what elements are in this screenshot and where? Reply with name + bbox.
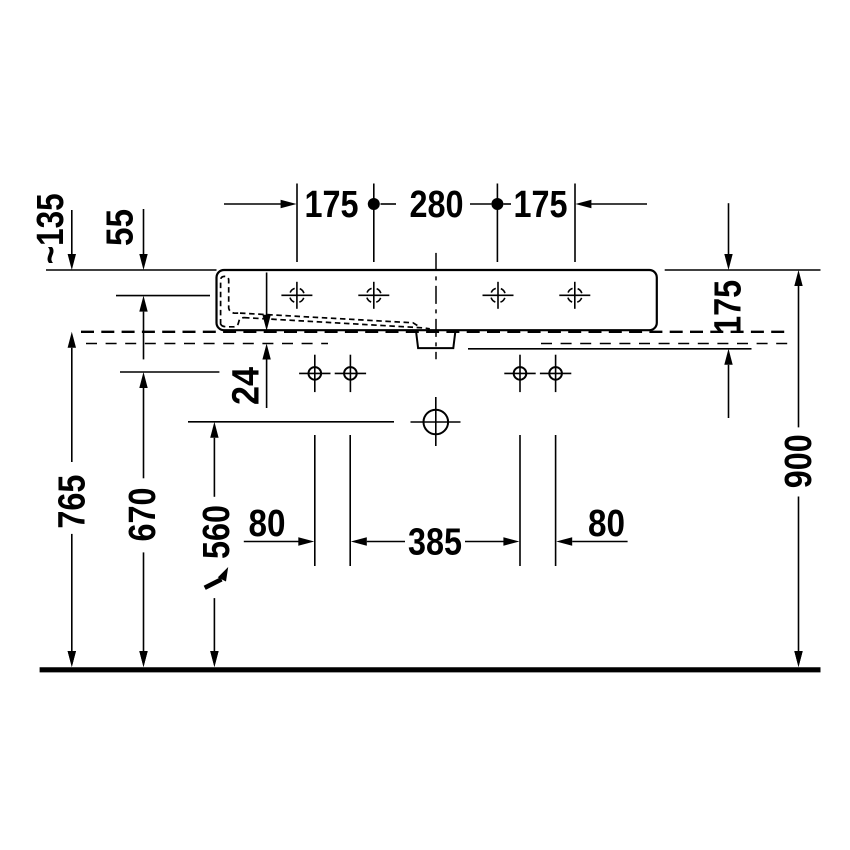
top dimension line right tail with arrow bbox=[575, 200, 647, 208]
dimension line stub bbox=[470, 203, 491, 205]
reference line A basin top level left bbox=[46, 269, 217, 271]
dimension 80 left line with arrow bbox=[244, 537, 314, 545]
svg-text:55: 55 bbox=[100, 209, 142, 246]
svg-text:80: 80 bbox=[249, 503, 286, 545]
label 765 bbox=[51, 475, 93, 529]
dimension 24 lower arrow bbox=[262, 344, 270, 409]
svg-text:175: 175 bbox=[708, 280, 750, 334]
label 55 bbox=[100, 209, 142, 246]
dimension 55 line with down arrow bbox=[139, 209, 147, 270]
dimension 900 line bbox=[794, 270, 802, 667]
thin dashed mounting line left bbox=[86, 343, 328, 345]
svg-text:175: 175 bbox=[514, 184, 568, 226]
svg-text:80: 80 bbox=[588, 503, 625, 545]
vertical centerline bbox=[435, 253, 437, 359]
left fixing hole 1 bbox=[299, 355, 330, 392]
label ~135 bbox=[30, 193, 72, 264]
reference line B bbox=[116, 295, 210, 297]
dimension 55 lower arrow bbox=[139, 296, 147, 360]
thin dashed mounting line right bbox=[541, 343, 788, 345]
dimension 385 right arrow bbox=[465, 537, 519, 545]
dimension 670 ground arrow bbox=[139, 651, 147, 667]
dimension 560 line bbox=[210, 422, 218, 667]
label 670 bbox=[122, 488, 164, 542]
extension line left hole 1 bbox=[314, 435, 316, 566]
svg-text:765: 765 bbox=[51, 475, 93, 529]
svg-text:670: 670 bbox=[122, 488, 164, 542]
node dot faucet hole 3 bbox=[491, 198, 503, 210]
dimension 765 ground arrow bbox=[68, 651, 76, 667]
node dot faucet hole 2 bbox=[368, 198, 380, 210]
right fixing hole 2 bbox=[540, 355, 571, 392]
dimension 80 right line with arrow bbox=[556, 537, 627, 545]
label 24 bbox=[226, 367, 268, 405]
faucet hole 3 bbox=[483, 282, 514, 309]
dimension 670 line bbox=[139, 372, 147, 667]
reference line C fixing hole level bbox=[120, 371, 219, 373]
svg-text:24: 24 bbox=[226, 367, 268, 405]
label 80 right bbox=[588, 503, 625, 545]
reference line basin top level right bbox=[665, 269, 821, 271]
svg-text:385: 385 bbox=[408, 521, 462, 563]
svg-text:900: 900 bbox=[778, 434, 820, 488]
basin inner bowl hidden profile bbox=[221, 276, 430, 329]
label 80 left bbox=[249, 503, 286, 545]
dimension 175 right upper arrow bbox=[724, 203, 732, 270]
extension line faucet hole 1 bbox=[296, 184, 298, 263]
dimension line stub bbox=[381, 203, 397, 205]
right fixing hole 1 bbox=[504, 355, 535, 392]
faucet hole 2 bbox=[358, 282, 389, 309]
dimension line stub bbox=[503, 203, 511, 205]
dimension 385 left arrow bbox=[351, 537, 405, 545]
dimension 175 right lower arrow bbox=[724, 349, 732, 418]
reference line D drain level bbox=[188, 421, 394, 423]
extension line right hole 2 bbox=[555, 435, 557, 566]
dimension ~135 line with down arrow bbox=[68, 210, 76, 270]
dimension 900 ground arrow bbox=[794, 651, 802, 667]
extension line faucet hole 4 bbox=[574, 184, 576, 263]
label 280 top-center bbox=[410, 184, 464, 226]
label 560 bbox=[196, 505, 238, 559]
label 385 bbox=[408, 521, 462, 563]
extension line left hole 2 bbox=[349, 435, 351, 566]
basin outline bbox=[217, 270, 657, 330]
dimension 560 ground arrow bbox=[210, 651, 218, 667]
extension line faucet hole 2 bbox=[373, 184, 375, 263]
bold dashed line basin bottom level bbox=[81, 331, 791, 333]
label 900 bbox=[778, 434, 820, 488]
ground line bbox=[40, 667, 821, 672]
svg-text:280: 280 bbox=[410, 184, 464, 226]
left fixing hole 2 bbox=[335, 355, 366, 392]
solid line right lower level bbox=[468, 348, 752, 350]
dimension 765 line bbox=[68, 332, 76, 667]
drain hole bbox=[411, 397, 461, 446]
svg-text:~135: ~135 bbox=[30, 193, 72, 264]
top dimension line left tail with arrow bbox=[224, 200, 297, 208]
extension line right hole 1 bbox=[519, 435, 521, 566]
label 175 top-right bbox=[514, 184, 568, 226]
svg-text:175: 175 bbox=[305, 184, 359, 226]
diagonal pointer arrow bbox=[205, 567, 229, 588]
faucet hole 4 bbox=[559, 282, 590, 309]
label 175 right bbox=[708, 280, 750, 334]
extension line faucet hole 3 bbox=[496, 184, 498, 263]
svg-text:560: 560 bbox=[196, 505, 238, 559]
drain tailpiece trapezoid bbox=[416, 330, 456, 348]
faucet hole 1 bbox=[281, 282, 312, 309]
label 175 top-left bbox=[305, 184, 359, 226]
dimension 24 upper arrow bbox=[262, 273, 270, 331]
